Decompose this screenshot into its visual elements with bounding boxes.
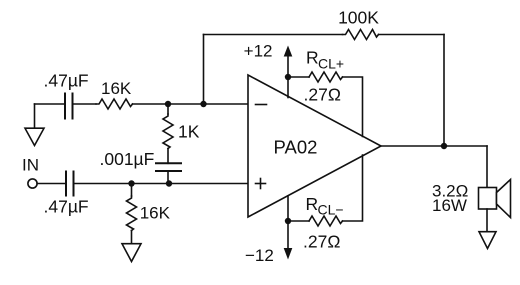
ground (speaker) [479,232,496,249]
svg-text:16K: 16K [140,204,171,223]
wire (op-amp output) [381,145,487,147]
wire (feedback drop to output node) [443,35,445,147]
svg-text:R: R [306,194,319,214]
wire (C3 to op-amp non-inverting input) [74,183,249,185]
reference label RCL+ [306,48,344,72]
wire (V+ junction to op-amp top) [287,77,289,98]
wire (RCL- to sense pin) [343,155,363,221]
wire (node to 1K) [167,104,169,114]
op-amp U1 PA02 [248,75,381,217]
resistor R1 16K (top) [96,99,133,109]
capacitor C3 .47uF (bottom input) [66,172,74,196]
wire (1K to C2) [167,149,169,164]
node (output junction) [441,143,447,149]
wire (C1 to R1) [73,103,97,105]
resistor R5 100K (feedback) [343,30,379,40]
wire (R1 to op-amp inverting input) [133,103,249,105]
wire (C2 to bottom rail) [167,171,169,184]
svg-text:.001µF: .001µF [100,149,155,169]
svg-text:PA02: PA02 [274,137,318,158]
supply -12 (arrow down) [284,221,293,260]
resistor R3 1K (vertical) [163,114,173,149]
node (junction R1 / 1K) [165,101,171,107]
svg-text:100K: 100K [338,8,379,28]
svg-text:CL+: CL+ [318,56,344,72]
wire (RCL+ to sense pin) [343,77,363,137]
wire (feedback top rail left of 100K) [204,34,343,36]
resistor RCL- .27ohm [309,216,343,226]
node (V+ junction) [285,74,291,80]
wire (feedback top rail right of 100K) [379,34,445,36]
wire (op-amp bottom to V- node) [287,196,289,221]
wire (output drop to speaker) [486,146,488,188]
svg-text:.27Ω: .27Ω [304,85,341,105]
wire (V+ node to RCL+) [288,76,309,78]
svg-text:.47µF: .47µF [44,197,89,217]
speaker LS1 [479,180,511,218]
ground (16K shunt) [122,244,141,262]
wire (V- node to RCL-) [288,220,309,222]
wire (IN to C3) [37,183,66,185]
resistor R2 16K (shunt to ground) [127,196,137,231]
svg-text:.47µF: .47µF [44,71,89,91]
svg-text:.27Ω: .27Ω [303,232,340,252]
svg-text:+12: +12 [244,42,273,61]
svg-text:1K: 1K [178,121,200,141]
node (junction feedback / inverting input) [200,101,206,107]
value label 3.2ohm 16W [432,181,468,215]
wire (feedback riser from inverting node) [203,35,205,105]
ground (top-left input return) [25,104,44,146]
svg-text:16W: 16W [432,196,467,215]
wire (ground to C1) [35,103,66,105]
wire (speaker to ground) [486,209,488,232]
resistor RCL+ .27ohm [309,72,343,82]
capacitor C1 .47uF (top input) [65,94,73,119]
svg-text:16K: 16K [101,79,132,98]
reference label RCL- [306,194,344,218]
wire (node to R2) [131,184,133,197]
svg-text:R: R [306,48,319,68]
node (junction 16K shunt) [128,180,134,186]
supply +12 (arrow up) [284,46,293,78]
node (junction C2 bottom) [166,180,172,186]
wire (R2 to ground) [131,231,133,244]
svg-text:−12: −12 [245,246,274,265]
svg-text:IN: IN [22,156,39,175]
node (V- junction) [285,218,291,224]
capacitor C2 .001uF [156,163,181,171]
terminal IN (input jack) [28,179,37,188]
svg-text:CL−: CL− [318,202,344,218]
